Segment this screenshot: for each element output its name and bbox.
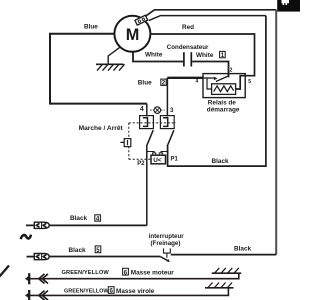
svg-text:P2: P2 xyxy=(137,161,145,167)
svg-text:M: M xyxy=(126,26,140,44)
svg-text:White: White xyxy=(145,52,163,59)
svg-text:U<: U< xyxy=(153,157,162,164)
svg-text:5: 5 xyxy=(248,79,251,85)
svg-text:GREEN/YELLOW: GREEN/YELLOW xyxy=(62,270,110,276)
svg-text:GREEN/YELLOW: GREEN/YELLOW xyxy=(64,288,109,294)
svg-text:Black: Black xyxy=(212,158,229,165)
svg-text:6: 6 xyxy=(110,288,114,295)
svg-text:Red: Red xyxy=(182,24,194,31)
svg-text:Blue: Blue xyxy=(138,79,152,86)
svg-text:4: 4 xyxy=(196,79,199,85)
svg-text:2: 2 xyxy=(230,68,233,74)
svg-text:(Freinage): (Freinage) xyxy=(151,240,181,247)
svg-text:4: 4 xyxy=(140,106,144,113)
svg-text:Condensateur: Condensateur xyxy=(167,44,209,51)
svg-text:P1: P1 xyxy=(171,157,179,163)
svg-text:White: White xyxy=(196,52,214,59)
svg-text:Masse moteur: Masse moteur xyxy=(131,270,174,277)
svg-text:Black: Black xyxy=(69,247,86,254)
svg-text:Black: Black xyxy=(234,246,251,253)
svg-text:3: 3 xyxy=(170,107,174,114)
svg-text:Masse virole: Masse virole xyxy=(116,288,155,295)
svg-text:Relais de: Relais de xyxy=(208,99,237,106)
svg-text:Black: Black xyxy=(70,215,87,222)
svg-text:Marche / Arrêt: Marche / Arrêt xyxy=(79,125,124,132)
svg-text:1: 1 xyxy=(221,52,225,59)
svg-text:interrupteur: interrupteur xyxy=(149,233,185,240)
svg-text:démarrage: démarrage xyxy=(207,106,240,113)
svg-text:Blue: Blue xyxy=(84,24,98,31)
